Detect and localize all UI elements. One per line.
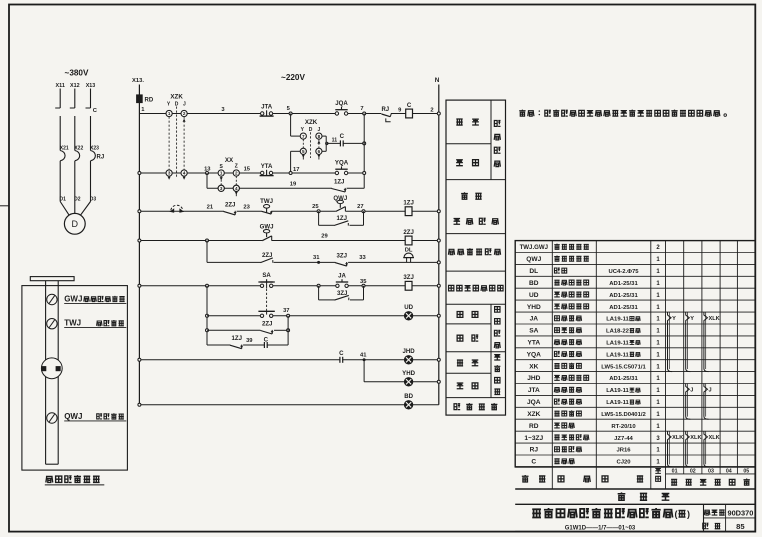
svg-text:1: 1 <box>220 171 223 176</box>
svg-text:02: 02 <box>690 468 696 474</box>
svg-text:1ZJ: 1ZJ <box>334 178 345 185</box>
svg-text:XK: XK <box>529 363 538 370</box>
svg-text:C: C <box>339 350 344 357</box>
svg-text:GWJ: GWJ <box>260 224 274 231</box>
svg-text:03: 03 <box>708 468 714 474</box>
svg-text:01: 01 <box>672 468 678 474</box>
svg-text:04: 04 <box>726 468 732 474</box>
svg-text:Y: Y <box>672 316 676 322</box>
svg-text:QWJ: QWJ <box>64 412 82 421</box>
svg-text:XZK: XZK <box>527 411 540 418</box>
svg-text:D3: D3 <box>90 196 97 202</box>
svg-text:2ZJ: 2ZJ <box>262 321 273 328</box>
svg-text:Y: Y <box>690 316 694 322</box>
svg-text:RJ: RJ <box>97 155 105 161</box>
svg-text:33: 33 <box>359 255 366 261</box>
svg-text:X12: X12 <box>70 83 80 89</box>
svg-text:5: 5 <box>302 149 305 154</box>
svg-text:QWJ: QWJ <box>333 195 347 202</box>
svg-text:DL: DL <box>529 268 538 275</box>
svg-text:YTA: YTA <box>261 163 273 170</box>
svg-text:LA18-22: LA18-22 <box>606 329 630 335</box>
svg-text:RJ: RJ <box>381 107 389 113</box>
svg-text:1: 1 <box>168 111 171 116</box>
svg-text:X22: X22 <box>74 145 83 151</box>
svg-text:JQA: JQA <box>527 399 541 406</box>
svg-text:2: 2 <box>430 107 433 113</box>
svg-text:SA: SA <box>262 272 271 279</box>
svg-text:Z: Z <box>235 164 238 170</box>
svg-text:JQA: JQA <box>335 100 348 107</box>
svg-text:~380V: ~380V <box>65 69 89 78</box>
svg-text:N: N <box>435 77 440 84</box>
svg-text:2: 2 <box>183 111 186 116</box>
svg-text:8: 8 <box>318 134 321 139</box>
svg-text:YHD: YHD <box>402 370 415 377</box>
svg-text:YTA: YTA <box>527 340 540 347</box>
svg-text:2ZJ: 2ZJ <box>225 202 236 209</box>
svg-text:AD1-25/31: AD1-25/31 <box>609 376 638 382</box>
svg-text:XX: XX <box>225 157 234 164</box>
svg-text:7: 7 <box>360 106 363 112</box>
svg-text:AD1-25/31: AD1-25/31 <box>609 281 638 287</box>
svg-text:3: 3 <box>220 186 223 191</box>
svg-text:RD: RD <box>529 423 539 430</box>
svg-text:X11: X11 <box>56 83 65 89</box>
svg-text:RJ: RJ <box>530 447 539 454</box>
svg-text:3ZJ: 3ZJ <box>337 253 348 260</box>
svg-text:2: 2 <box>235 171 238 176</box>
svg-text:JTA: JTA <box>261 103 273 110</box>
svg-text:17: 17 <box>293 167 299 173</box>
svg-text:JZ7-44: JZ7-44 <box>614 436 633 442</box>
svg-text:AD1-25/31: AD1-25/31 <box>609 305 638 311</box>
svg-text:7: 7 <box>302 134 305 139</box>
svg-text:TWJ: TWJ <box>260 198 273 205</box>
svg-text:J: J <box>318 127 321 133</box>
svg-text:D2: D2 <box>74 196 81 202</box>
svg-text:YQA: YQA <box>335 159 349 166</box>
svg-text:19: 19 <box>290 182 297 188</box>
svg-text:GWJ: GWJ <box>64 295 82 304</box>
svg-text:C: C <box>407 102 412 109</box>
svg-text:RD: RD <box>145 97 154 103</box>
svg-text:4: 4 <box>235 186 238 191</box>
svg-text:LW5-15.D0401/2: LW5-15.D0401/2 <box>601 412 646 418</box>
svg-text:G1W1D——1/7——01~03: G1W1D——1/7——01~03 <box>565 526 636 532</box>
svg-text:J: J <box>690 387 693 393</box>
svg-text:41: 41 <box>360 352 367 358</box>
svg-text:~220V: ~220V <box>281 73 305 82</box>
svg-text:JHD: JHD <box>402 348 415 355</box>
svg-text:XLK: XLK <box>690 435 701 441</box>
svg-text:XLK: XLK <box>709 435 720 441</box>
svg-text:35: 35 <box>360 279 367 285</box>
svg-text:85: 85 <box>736 522 745 531</box>
svg-text:QWJ: QWJ <box>526 256 541 263</box>
svg-text:XLK: XLK <box>672 435 683 441</box>
svg-text:XZK: XZK <box>170 93 183 100</box>
svg-text:6: 6 <box>318 149 321 154</box>
svg-text:39: 39 <box>246 338 253 344</box>
svg-text:D: D <box>72 219 79 229</box>
svg-text:XLK: XLK <box>709 316 720 322</box>
svg-text:LA19-11: LA19-11 <box>606 341 629 347</box>
svg-text:C: C <box>340 133 345 140</box>
svg-text:JHD: JHD <box>527 375 540 382</box>
svg-text:90D370: 90D370 <box>727 508 753 517</box>
svg-text:15: 15 <box>244 167 251 173</box>
svg-text:3ZJ: 3ZJ <box>337 290 348 297</box>
svg-text:2ZJ: 2ZJ <box>262 252 273 259</box>
svg-text:C: C <box>531 459 536 466</box>
svg-text:1ZJ: 1ZJ <box>403 200 414 207</box>
svg-text:JA: JA <box>530 316 539 323</box>
svg-text:37: 37 <box>283 308 289 314</box>
svg-text:X23: X23 <box>90 145 99 151</box>
svg-text:TWJ.GWJ: TWJ.GWJ <box>520 244 548 251</box>
svg-text:LW5-15.C5071/1: LW5-15.C5071/1 <box>601 364 646 370</box>
svg-text:23: 23 <box>243 204 250 210</box>
svg-text:DL: DL <box>405 247 413 253</box>
svg-text:11: 11 <box>332 138 338 144</box>
svg-text:UC4-2.Φ75: UC4-2.Φ75 <box>608 269 639 275</box>
svg-text:YHD: YHD <box>527 304 541 311</box>
svg-text:J: J <box>709 387 712 393</box>
svg-text:UD: UD <box>529 292 539 299</box>
svg-text:UD: UD <box>404 304 413 311</box>
svg-text:JR16: JR16 <box>616 448 631 454</box>
svg-text:BD: BD <box>529 280 539 287</box>
svg-text:1ZJ: 1ZJ <box>232 335 243 342</box>
svg-text:YQA: YQA <box>527 351 542 358</box>
svg-text:BD: BD <box>404 393 413 400</box>
svg-text:4: 4 <box>183 171 186 176</box>
svg-text:X13.: X13. <box>132 78 144 84</box>
svg-text:3ZJ: 3ZJ <box>403 274 414 281</box>
svg-text:31: 31 <box>313 255 320 261</box>
svg-text:RT-20/10: RT-20/10 <box>611 424 636 430</box>
svg-text:1~3ZJ: 1~3ZJ <box>524 435 543 442</box>
svg-text:JTA: JTA <box>528 387 540 394</box>
svg-text:SA: SA <box>529 328 538 335</box>
svg-text:2ZJ: 2ZJ <box>403 229 414 236</box>
svg-text:05: 05 <box>743 468 749 474</box>
svg-text:3: 3 <box>168 171 171 176</box>
svg-text:CJ20: CJ20 <box>616 460 631 466</box>
svg-text:29: 29 <box>321 233 328 239</box>
svg-text:C: C <box>264 336 269 343</box>
svg-text:J: J <box>183 102 186 108</box>
svg-text:TWJ: TWJ <box>64 319 81 328</box>
svg-text:JA: JA <box>338 273 346 280</box>
svg-text:21: 21 <box>207 204 214 210</box>
svg-text:(: ( <box>675 509 678 519</box>
svg-text:LA19-11: LA19-11 <box>606 400 629 406</box>
svg-text:27: 27 <box>357 204 363 210</box>
svg-text:X21: X21 <box>60 145 69 151</box>
svg-text:25: 25 <box>312 204 319 210</box>
svg-text:X13: X13 <box>86 83 96 89</box>
svg-text:LA19-11: LA19-11 <box>606 317 629 323</box>
svg-text:1ZJ: 1ZJ <box>337 215 348 222</box>
svg-text:): ) <box>687 509 690 519</box>
svg-text:LA19-11: LA19-11 <box>606 388 629 394</box>
svg-text:AD1-25/31: AD1-25/31 <box>609 293 638 299</box>
svg-text:XZK: XZK <box>305 119 318 126</box>
svg-text:LA19-11: LA19-11 <box>606 352 629 358</box>
